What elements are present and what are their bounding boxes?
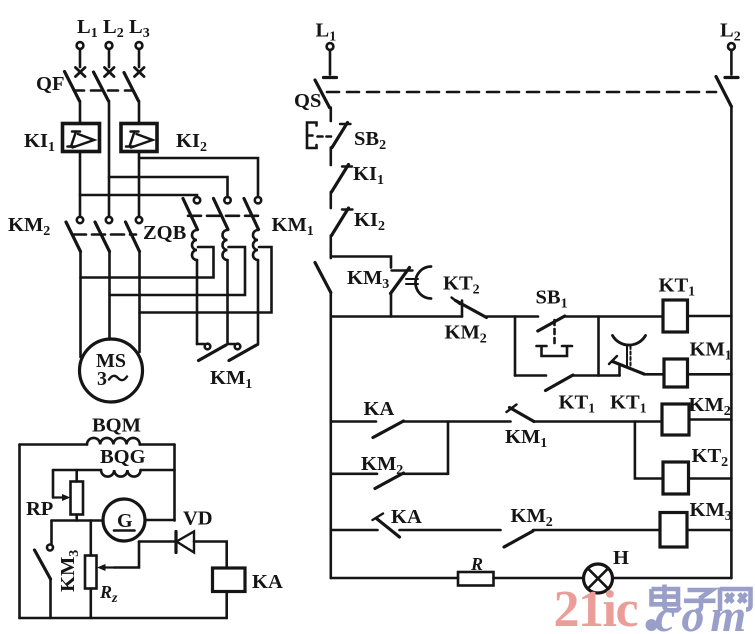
autotransformer ZQB coil 2 (223, 230, 229, 261)
wire phase A KI1 to KM2 contact (79, 152, 82, 217)
resistor R box (458, 572, 494, 586)
potentiometer RP top stub (75, 470, 78, 482)
contactor KM1 star contact circle 2 (235, 344, 241, 350)
contactor KM1 contact 2 blade (214, 199, 229, 230)
inductor BQG winding (101, 470, 141, 477)
wire row3 left (331, 529, 378, 532)
wire coil KT1 right (688, 315, 732, 318)
contact KA NC blade row3 (377, 519, 400, 538)
watermark char zi (684, 590, 716, 611)
breaker QF blade phase B (94, 72, 109, 101)
wire tap phase C to KM1 contact 3 (139, 158, 258, 197)
wire right rail (730, 107, 733, 579)
rheostat Rz wiper arrow (97, 564, 115, 571)
contactor KM2 linkage dashed (73, 233, 136, 236)
wire left rail row1 to row4 (329, 317, 332, 579)
wire BQM left (20, 443, 88, 446)
svg-text:ZQB: ZQB (143, 222, 187, 244)
lamp H cross (588, 568, 608, 588)
wire phase C QF to KI2 (138, 101, 141, 124)
wire KM2 contact1 to motor (79, 252, 82, 358)
relay KA coil box (213, 568, 246, 592)
wire L1 control stub (329, 50, 332, 75)
contactor KM1 star contact foot 2 (228, 343, 235, 346)
coil KM1 box (664, 359, 688, 387)
wire KM3 bottom (49, 579, 52, 618)
wire row2 mid (404, 420, 511, 423)
relay contact KI2 blade (332, 208, 349, 236)
contact KT1 NC tick (609, 356, 617, 364)
contactor KM2 contact 3 circle (136, 217, 142, 223)
wire rail KI2 to branch node (329, 236, 332, 259)
wire left rail of G loop (18, 445, 21, 619)
autotransformer ZQB coil 3 (253, 230, 259, 261)
contact KM1 NC blade row2 (510, 408, 535, 422)
terminal circle L1 control (327, 43, 334, 50)
contactor KM3 contact blade (35, 550, 51, 579)
wire ZQB coil1 tap to KM2 contact1 bottom (81, 247, 214, 278)
fuse X mark phase C (135, 68, 145, 77)
button SB2 dashed link (318, 135, 332, 138)
wire L2 stub (108, 49, 111, 67)
svg-text:RP: RP (26, 498, 53, 520)
wire junction row2 down to KT2 coil (635, 422, 663, 479)
coil KT1 box (663, 300, 688, 332)
contactor KM2 contact 2 circle (106, 217, 112, 223)
diode VD cathode bar (174, 532, 177, 553)
coil KM3 box (660, 513, 687, 548)
motor tilde (109, 376, 127, 380)
wire coil KM3 right (687, 529, 731, 532)
wire Rz wiper to diode branch (115, 542, 140, 568)
fuse X mark phase B (105, 68, 115, 77)
wire ZQB coil2 tap to KM2 contact2 bottom (110, 247, 246, 295)
wire rail SB2 to KI1 (329, 148, 332, 166)
breaker QF blade phase C (124, 73, 139, 102)
svg-text:VD: VD (183, 508, 213, 530)
current relay KI2 box (121, 124, 157, 152)
svg-text:QF: QF (36, 73, 64, 95)
timer KT2 delay equals (406, 279, 418, 284)
contactor KM1 star contact foot 1 (197, 343, 205, 346)
wire row2b left (331, 472, 377, 475)
wire KM2 contact2 to motor (108, 252, 111, 340)
svg-text:KA: KA (364, 398, 395, 420)
current relay KI1 box (63, 124, 100, 152)
wire diode to KA coil (194, 542, 227, 569)
wire rail KM1 aux to row1 (329, 293, 332, 317)
motor MS circle (80, 339, 143, 402)
svg-text:G: G (117, 510, 133, 532)
wire row3 right to KM3 coil (533, 529, 660, 532)
timer KT1 delay double line (627, 346, 631, 368)
switch QS fixed bar L1 (324, 76, 337, 79)
rheostat Rz box (85, 556, 97, 589)
switch QS blade L1 (315, 80, 330, 108)
contact KM2 NO blade row3 (504, 531, 533, 547)
contactor KM1 star blade 1 (199, 345, 227, 361)
terminal circle L2 control (728, 43, 735, 50)
wire BQG right (141, 469, 175, 472)
contact KA NC tick row3 (373, 514, 384, 521)
wire G loop bottom (20, 617, 227, 620)
timer KT1 delay cup arc (613, 336, 646, 346)
watermark com script (646, 619, 658, 631)
current relay KI1 symbol I> (68, 132, 95, 148)
wire G left bus (52, 519, 104, 522)
svg-text:com: com (655, 590, 752, 634)
button SB2 tick (340, 123, 351, 125)
wire KT1 bypass right leg (597, 317, 600, 376)
wire ZQB coil3 tap to KM2 contact3 bottom (140, 247, 272, 313)
wire row1 left (331, 315, 462, 318)
contactor KM1 star blade 2 (229, 345, 257, 361)
wire phase B QF down (108, 101, 111, 217)
potentiometer RP box (71, 482, 84, 515)
wire KM3 branch bottom (390, 294, 393, 317)
wire G right to rail (145, 519, 175, 522)
wire coil KM1 right (688, 373, 732, 376)
current relay KI2 symbol I> (126, 132, 153, 148)
wire KT1 bypass bottom left (515, 374, 546, 377)
wire tap phase B to KM1 contact 2 (109, 177, 228, 197)
rheostat Rz top stub (90, 521, 93, 556)
button SB1 plunger cup (537, 346, 573, 356)
svg-text:KA: KA (252, 571, 283, 593)
wire rail KI1 to KI2 (329, 192, 332, 208)
diode VD triangle (177, 532, 195, 553)
relay contact KI1 blade (332, 165, 349, 193)
wire KT1 bypass left leg (514, 317, 517, 376)
contactor KM1 linkage dashed (188, 215, 262, 218)
wire phase C KI2 to KM2 contact (138, 152, 141, 217)
contactor KM2 contact 1 blade (66, 222, 81, 252)
wire KA coil bottom (225, 592, 228, 619)
contactor KM2 contact 3 blade (126, 222, 140, 252)
wire row4 left (331, 577, 458, 580)
wire row4 right (613, 577, 732, 580)
wire ZQB coil2 to star contact (226, 260, 229, 344)
svg-text:BQM: BQM (92, 415, 141, 437)
coil KM2 box (662, 404, 689, 435)
button SB1 plunger dashed (553, 320, 556, 345)
contactor KM1 contact 1 circle (194, 197, 200, 203)
watermark char dian (purple) (652, 585, 681, 611)
svg-text:H: H (613, 547, 629, 569)
contact KT2 NO stub (461, 301, 464, 317)
svg-text:KA: KA (391, 506, 422, 528)
wire right rail of G loop (173, 445, 176, 521)
relay contact KI1 tick (342, 165, 352, 167)
svg-text:QS: QS (294, 90, 321, 112)
switch QS fixed bar L2 (725, 76, 738, 79)
contact KT2 NO blade (456, 301, 487, 318)
wire branch to KM3 contact (331, 257, 391, 268)
wire BQM right (140, 443, 175, 446)
wire row1 mid (487, 315, 539, 318)
svg-text:BQG: BQG (100, 446, 146, 468)
generator G underline (114, 529, 135, 532)
svg-text:R: R (470, 554, 483, 574)
contactor KM1 contact 3 circle (255, 197, 261, 203)
wire row2b up to row2 (447, 422, 450, 474)
button SB2 blade (332, 123, 348, 148)
breaker QF linkage dashed (74, 89, 133, 92)
wire BQG left (53, 469, 101, 472)
wire L1 stub (79, 49, 82, 67)
wire phase A QF to KI1 (79, 101, 82, 124)
wire tap phase A to KM1 contact 1 (80, 195, 197, 197)
svg-text:21ic: 21ic (554, 581, 638, 634)
contact KM1 aux blade (315, 263, 331, 293)
rheostat Rz bottom stub (90, 589, 93, 619)
wire KT1 bypass bottom right (573, 374, 599, 377)
contact KM3 NC bar (392, 269, 413, 271)
autotransformer ZQB coil 1 (192, 230, 198, 261)
potentiometer RP wiper arrow (53, 494, 71, 501)
wire row2 right to KM2 coil (534, 420, 662, 423)
contact KT2 NO tick (452, 298, 461, 305)
contact KA NO blade row2 (373, 421, 404, 438)
wire left rail QS to SB2 (329, 108, 332, 122)
contactor KM1 contact 3 blade (244, 199, 259, 230)
wire row2 left (331, 420, 376, 423)
contactor KM1 star contact circle 1 (205, 344, 211, 350)
wire diode anode (139, 540, 176, 543)
terminal circle L2 (106, 42, 113, 49)
contactor KM2 contact 2 blade (95, 222, 110, 252)
contactor KM3 brake branch top (50, 521, 53, 545)
wire ZQB coil1 to star contact (196, 260, 199, 344)
contactor KM3 contact circle (47, 545, 53, 551)
contactor KM1 contact 1 blade (183, 199, 198, 230)
switch QS linkage dashed (327, 91, 716, 94)
svg-text:3: 3 (97, 368, 107, 390)
contact KT1 NO blade (546, 375, 574, 391)
lamp H circle (584, 564, 613, 593)
wire row4 mid (494, 577, 584, 580)
wire KT1 NC to KM1 coil (644, 373, 664, 376)
contact KM1 NC tick row2 (507, 405, 517, 413)
terminal circle L3 (136, 42, 143, 49)
button SB2 bracket (307, 123, 317, 149)
contact KT1 NC blade (613, 362, 645, 375)
switch QS blade L2 (716, 77, 731, 107)
timer KT2 delay arc (415, 267, 431, 299)
wire row2b right (404, 472, 449, 475)
coil KT2 box (663, 462, 689, 494)
wire to KT1 NC delayed contact (599, 374, 620, 377)
contact KT1 NC stub (618, 366, 621, 376)
watermark char wang (720, 588, 751, 612)
generator G circle (103, 499, 145, 541)
relay contact KI2 tick (342, 208, 353, 210)
contact KM3 NC blade (391, 268, 410, 294)
wire L3 stub (138, 49, 141, 67)
fuse X mark phase A (76, 68, 86, 77)
terminal circle L1 (77, 42, 84, 49)
potentiometer RP bottom stub (75, 515, 78, 521)
wire BQG left leg down (52, 470, 55, 498)
wire row1 right (565, 315, 663, 318)
contactor KM2 contact 1 circle (77, 217, 83, 223)
wire coil KM2 right (689, 418, 731, 421)
inductor BQM winding (87, 438, 140, 445)
wire row3 mid (400, 529, 501, 532)
wire coil KT2 right (689, 477, 732, 480)
breaker QF blade phase A (65, 72, 80, 102)
wire KM2 contact3 to motor (138, 252, 141, 353)
button SB1 blade (538, 316, 565, 331)
wire ZQB coil3 to star contact (257, 260, 260, 345)
wire L2 control stub (730, 50, 733, 75)
contact KM2 NO blade row2b (375, 473, 404, 489)
contactor KM1 contact 2 circle (224, 197, 230, 203)
